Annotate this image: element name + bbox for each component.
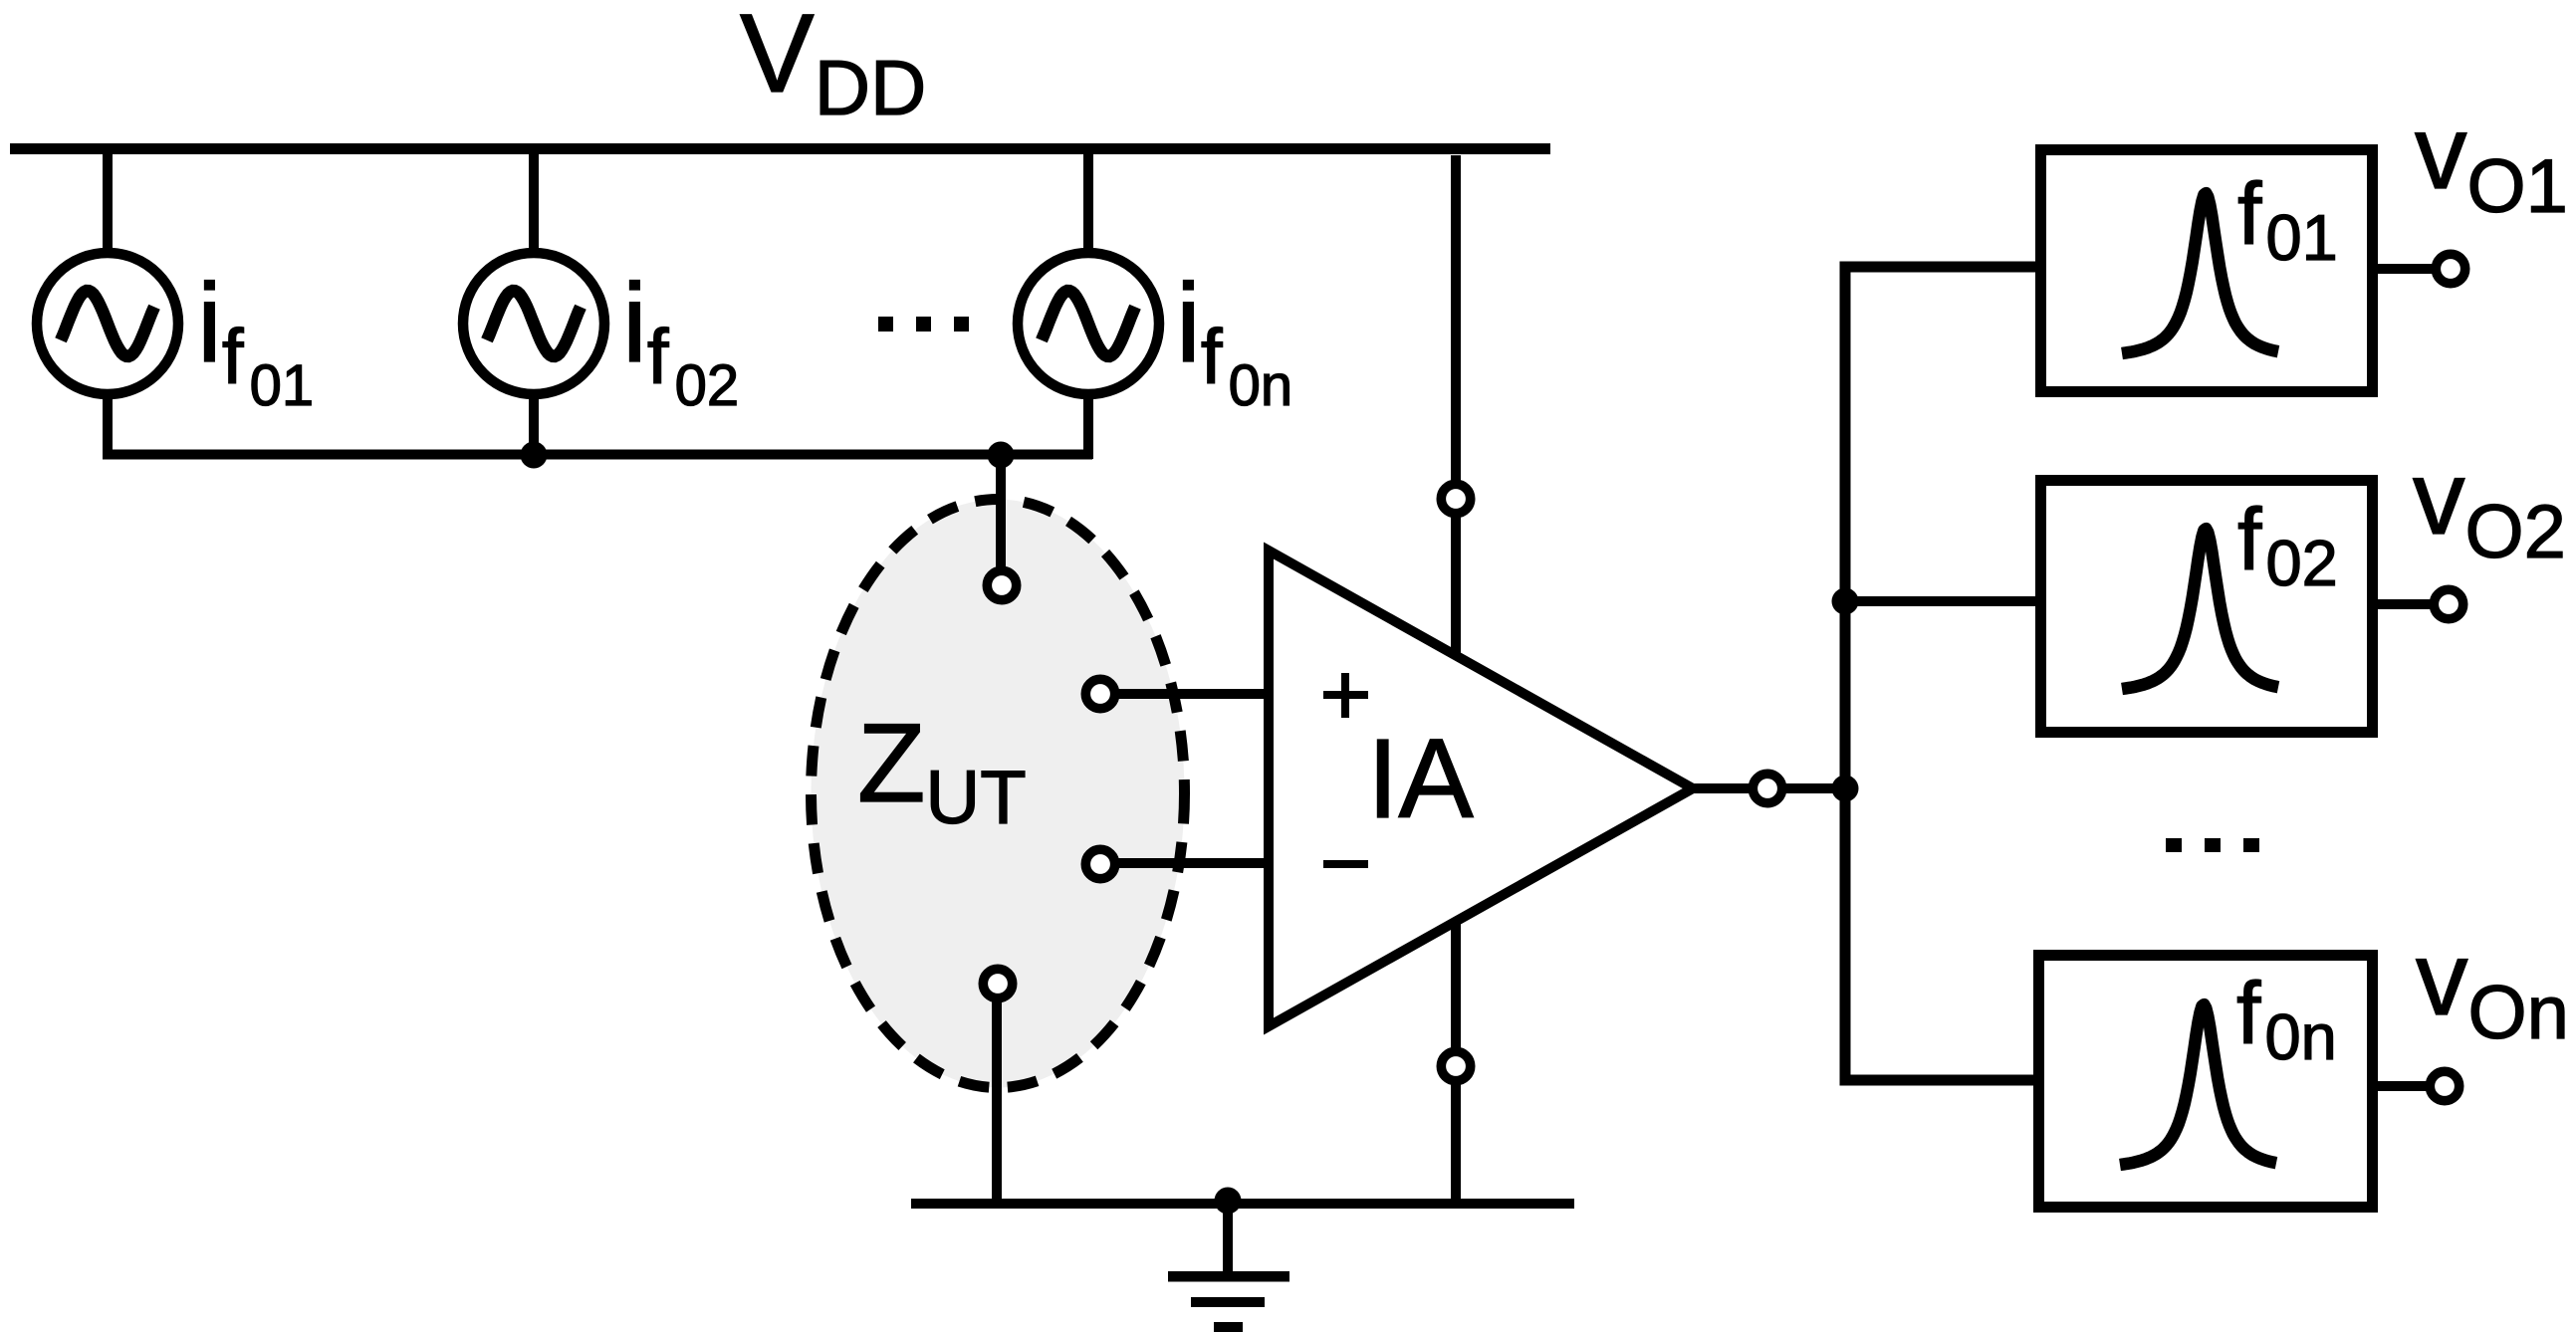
wire to filter 2 xyxy=(1845,596,2035,606)
terminal ZUT top xyxy=(987,570,1016,599)
ellipsis more filters xyxy=(2166,838,2259,852)
plus input mark xyxy=(1323,673,1368,718)
terminal vO1 xyxy=(2436,254,2464,283)
terminal vOn xyxy=(2430,1071,2459,1100)
wire source 2 bottom xyxy=(529,390,539,459)
terminal ZUT right top xyxy=(1085,679,1114,708)
op-amp IA triangle xyxy=(1269,551,1693,1026)
current source i_f02 xyxy=(463,253,604,394)
svg-text:IA: IA xyxy=(1367,716,1474,841)
wire ZUT top feed xyxy=(996,455,1006,572)
wire filter 2 output xyxy=(2378,599,2433,609)
filter box f0n xyxy=(2039,956,2373,1208)
impedance under test ZUT dashed ellipse xyxy=(812,500,1185,1088)
wire stem source 2 xyxy=(529,149,539,257)
wire filter 1 output xyxy=(2378,264,2435,274)
terminal ZUT right bottom xyxy=(1085,849,1114,878)
VDD rail xyxy=(10,143,1550,154)
wire filter n output xyxy=(2378,1081,2429,1091)
wire stem source 1 xyxy=(103,149,113,257)
bandpass curve f02 xyxy=(2122,529,2278,689)
wire ZUT to IA + input xyxy=(1117,689,1271,699)
ground bus xyxy=(911,1199,1574,1209)
wire source 1 bottom xyxy=(103,390,113,459)
IA output wire xyxy=(1693,783,1845,793)
filter box f01 xyxy=(2041,150,2373,392)
wire source n bottom xyxy=(1083,390,1093,459)
junction dot ground xyxy=(1215,1188,1242,1215)
minus input mark xyxy=(1323,860,1368,868)
bandpass curve f01 xyxy=(2122,193,2278,353)
IA output terminal xyxy=(1753,774,1781,802)
ground symbol xyxy=(1168,1271,1289,1332)
bandpass curve f0n xyxy=(2120,1004,2276,1165)
junction dot ZUT feed xyxy=(988,442,1015,469)
wire ZUT bottom to ground bus xyxy=(992,996,1002,1209)
ellipsis more sources xyxy=(878,317,969,332)
current source i_f0n xyxy=(1018,253,1159,394)
current source i_f01 xyxy=(37,253,178,394)
junction dot IA output xyxy=(1832,776,1859,802)
junction dot source 2 xyxy=(521,442,548,469)
bottom bus of sources xyxy=(103,450,1092,460)
IA supply wire to triangle xyxy=(1451,515,1461,655)
terminal ZUT bottom xyxy=(983,969,1012,998)
ground stem xyxy=(1223,1204,1233,1274)
filter box f02 xyxy=(2041,481,2373,733)
right distribution bus xyxy=(1845,267,2035,1080)
wire ZUT to IA - input xyxy=(1117,858,1271,868)
IA supply wire below triangle xyxy=(1451,919,1461,1048)
IA supply terminal bottom xyxy=(1441,1051,1470,1080)
IA supply terminal top xyxy=(1441,484,1470,513)
wire stem source n xyxy=(1083,149,1093,257)
junction dot filter 2 branch xyxy=(1832,588,1859,615)
terminal vO2 xyxy=(2434,589,2462,618)
IA supply wire from VDD xyxy=(1451,155,1461,483)
IA supply wire to ground bus xyxy=(1451,1082,1461,1209)
